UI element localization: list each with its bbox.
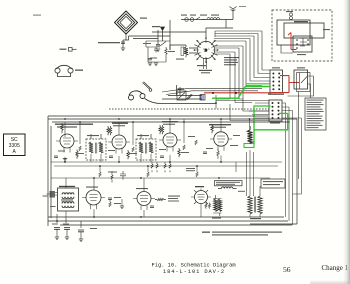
wire second row connections <box>66 178 201 218</box>
label T-402 top <box>294 21 308 22</box>
capacitor C-405 <box>109 156 113 157</box>
lever PTT <box>187 94 193 100</box>
handset H-33 <box>129 91 146 100</box>
label AUDIO OUTPUT <box>209 124 231 125</box>
coil L-407 horizontal <box>218 187 237 189</box>
IF transformer T-403 <box>86 134 106 160</box>
terminal strip A-401 terminals <box>272 73 280 91</box>
connector P-401 plug at top <box>290 11 293 20</box>
wire black pair from mic <box>162 89 262 95</box>
resistor R-407 <box>196 172 198 177</box>
svg-text:SC: SC <box>11 137 18 143</box>
capacitor C-409 <box>150 206 154 207</box>
label T-401 <box>250 218 261 219</box>
ground C-403 <box>148 63 152 66</box>
wire inside remote box <box>281 38 307 53</box>
label key M-301 <box>60 49 67 50</box>
svg-text:184-L-101 DAV-2: 184-L-101 DAV-2 <box>163 269 225 275</box>
inductive device box <box>215 181 243 186</box>
label C-402 <box>152 26 160 27</box>
resistor R-406 <box>147 172 149 177</box>
label R-414 <box>108 172 117 173</box>
ground antenna <box>121 48 125 51</box>
label J-403 <box>43 196 48 197</box>
label T-403 values <box>87 135 99 136</box>
junction dots on rails <box>56 102 250 222</box>
label S-402 <box>197 65 206 66</box>
ground C-410 <box>55 237 59 240</box>
terminal strip A-403 terminals <box>272 102 280 119</box>
terminal strip A-401 body <box>270 70 283 93</box>
wire green long feed <box>212 87 270 99</box>
resistor hanger V-404 <box>211 124 213 133</box>
ground C-412 <box>79 239 83 242</box>
wire rotary switch feeds <box>152 20 233 38</box>
scattered value labels row1 <box>58 135 240 154</box>
resistor pair hangers R-412 R-413 <box>151 162 171 172</box>
junction sub-circuit C-403 R-416 <box>146 41 170 62</box>
capacitor C-406 <box>160 156 164 157</box>
resistor R-415 below V-404 <box>217 149 219 159</box>
resistor hanger pair mid <box>107 126 112 135</box>
ground V-405 <box>120 206 124 209</box>
wire green strip A-403 right loop <box>254 113 289 129</box>
wire black feeds strip A-403 <box>216 101 302 226</box>
label 1ST AMP <box>112 123 128 124</box>
label L-401 <box>176 59 184 60</box>
tube V-405 <box>82 190 105 209</box>
label under strip A-401 <box>268 94 284 95</box>
resistor network R-414 mid <box>111 171 126 183</box>
label S-402 under rotary <box>199 70 212 74</box>
terminal strip A-403 body <box>269 100 282 121</box>
fuse F-401 <box>185 18 189 22</box>
fuse F-402 <box>190 18 194 22</box>
capacitor C-403 <box>148 59 152 60</box>
label antenna values <box>98 42 120 43</box>
wire caps to ground <box>57 229 81 239</box>
coil L-402 <box>207 18 220 20</box>
label L-405 green highlight <box>244 144 254 148</box>
wire green strip A-403 left <box>254 106 271 144</box>
parts list text rows <box>307 100 324 128</box>
capacitor C-412 <box>78 230 84 232</box>
resistor R-405 <box>99 172 101 177</box>
label V-407 <box>195 186 204 187</box>
ground junction <box>154 63 158 66</box>
capacitor C-408 <box>108 198 112 199</box>
resistor pair right of V-407 <box>205 203 211 209</box>
resistor R-401 <box>79 146 81 151</box>
label junction parts <box>143 43 175 59</box>
wire left drop to caps <box>57 214 81 228</box>
label L-408 <box>297 67 305 68</box>
resistor below V-403 <box>178 148 180 157</box>
resistor hanger left <box>61 123 63 133</box>
label HS-30 <box>75 70 83 71</box>
power transformer T-401 <box>248 191 262 217</box>
box A-405 overlapping <box>284 23 324 38</box>
wire chassis right drops <box>296 119 298 224</box>
ground C-402 <box>156 49 160 52</box>
label PTT <box>178 88 185 89</box>
wire red remote box <box>288 33 297 50</box>
wire chassis left edge <box>48 116 51 226</box>
IF transformer T-404 <box>136 134 156 160</box>
wire L-408 down past legend <box>298 92 300 180</box>
svg-text:3305: 3305 <box>9 143 20 149</box>
resistor R-408 <box>109 202 111 207</box>
wire red jumper strip A-401 <box>271 76 299 93</box>
capacitor C-410 <box>54 228 60 230</box>
resistor below V-401 <box>76 150 78 159</box>
parts list legend box <box>305 98 326 130</box>
blue wire stub <box>201 95 203 100</box>
label C-408 values <box>114 197 121 204</box>
box L-408 switch unit <box>294 70 310 92</box>
capacitor C-402 <box>156 45 160 46</box>
label V-405 <box>86 187 98 188</box>
label A-401 <box>272 67 280 68</box>
label A-402 right <box>323 29 330 30</box>
label 2ND AMP <box>162 121 178 122</box>
key lever switch <box>143 82 151 89</box>
filter choke T-406 double coil <box>213 195 222 216</box>
loop antenna LP-401 diamond <box>115 11 138 34</box>
resistive device box <box>261 179 285 188</box>
stray mark top left <box>33 15 41 16</box>
label J-401 bottom <box>297 54 306 55</box>
resistor hanger pair right <box>159 125 164 134</box>
label A-403 <box>270 122 280 123</box>
dashed enclosure remote unit <box>272 10 332 61</box>
label V-401 oscillator detector <box>55 124 93 128</box>
audio transformer T-405 <box>58 188 79 211</box>
box A-404 outer <box>277 20 310 45</box>
note text bottom <box>202 232 282 236</box>
connector J-401 pins <box>296 39 309 49</box>
switch box PTT <box>177 91 186 100</box>
wire chassis top rails <box>48 116 297 122</box>
capacitor C-401 on antenna stem <box>121 42 125 43</box>
label T-405 <box>59 186 75 187</box>
tube V-402 <box>108 135 130 154</box>
wire chassis mid rails <box>51 162 282 178</box>
antenna AT-401 whip symbol <box>230 7 237 15</box>
key J-402 <box>69 48 77 52</box>
svg-text:Fig. 10. Schematic Diagram: Fig. 10. Schematic Diagram <box>152 263 236 269</box>
capacitor C-404 <box>54 156 58 157</box>
wire T-401 leads up <box>247 150 261 196</box>
resistor R-402 <box>132 147 134 152</box>
label AT-401 <box>239 6 246 7</box>
labels over lead-in chain <box>181 15 187 16</box>
ground V-401 <box>63 159 67 162</box>
label T-406 <box>212 218 221 219</box>
capacitor C-411 <box>64 228 70 230</box>
wire rotary bottom leads <box>204 58 207 69</box>
headset HS-30 <box>55 65 73 76</box>
tube V-403 <box>159 133 181 152</box>
tube V-404 <box>210 132 232 151</box>
wire green pair upper <box>246 83 270 85</box>
label 500 500 divider <box>186 168 195 171</box>
label L-300 <box>140 18 147 19</box>
wire bus rotary to right (upper group) <box>214 31 270 86</box>
wire antenna lead-in <box>181 14 233 20</box>
rotary switch S-402 body <box>194 37 219 63</box>
box J-401 inner <box>293 36 312 52</box>
resistor below V-402 <box>127 150 129 159</box>
label switch position table <box>224 57 239 65</box>
arrow-down antenna tap <box>161 27 165 41</box>
label V-406 <box>136 188 148 189</box>
wire handset to chassis <box>161 85 216 103</box>
cord handset <box>145 99 162 104</box>
wire tube row lower connections <box>65 154 221 162</box>
label T-404 values <box>137 135 149 136</box>
junction dots on red feed <box>212 92 214 94</box>
resistive device text <box>263 181 283 185</box>
label L-407 <box>238 191 245 192</box>
capacitor C-407 <box>203 152 207 153</box>
label L-406 <box>50 206 56 207</box>
wire loop antenna stem <box>123 33 129 48</box>
switch S-401 <box>196 17 205 20</box>
wire antenna to tuner <box>129 20 171 50</box>
tube V-401 <box>56 134 78 153</box>
connector left edge J-403 <box>47 191 59 198</box>
wire tube row connections <box>65 119 250 145</box>
label P-401 <box>286 11 293 12</box>
resistor R-404 <box>195 140 197 145</box>
wire chassis bottom rails <box>48 217 297 225</box>
svg-text:56: 56 <box>283 265 291 274</box>
inductive device text <box>216 182 240 185</box>
SC 3305 A drawing number box <box>4 134 26 156</box>
jack box small <box>200 95 205 101</box>
ground C-411 <box>65 237 69 240</box>
transformer L-401 left of switch <box>170 45 197 57</box>
label C-410 C-411 <box>52 224 97 230</box>
wire L-408 to bus <box>288 76 314 98</box>
label R-409 values <box>168 196 180 202</box>
resistor R-403 <box>183 145 185 150</box>
resistor network mid <box>100 162 236 172</box>
wire dashed control line <box>109 108 269 110</box>
wire bus rotary to right (lower group) <box>215 46 269 111</box>
wire red long feed <box>204 92 271 94</box>
coil L-405 <box>248 126 253 144</box>
tube V-407 rectifier <box>191 190 211 208</box>
resistor R-409 <box>155 198 166 200</box>
tube V-406 <box>133 192 155 211</box>
